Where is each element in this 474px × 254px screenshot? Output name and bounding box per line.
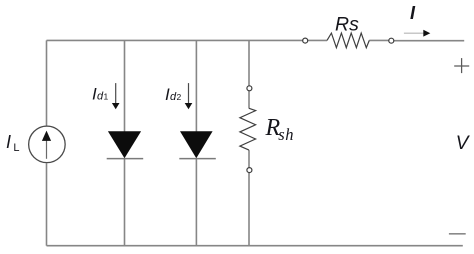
svg-text:I: I (410, 3, 416, 23)
svg-text:V: V (456, 133, 471, 154)
svg-text:sh: sh (278, 125, 294, 144)
svg-text:Rs: Rs (335, 13, 359, 35)
svg-text:1: 1 (104, 91, 109, 101)
svg-text:2: 2 (177, 92, 182, 102)
svg-text:L: L (13, 142, 19, 154)
svg-text:I: I (6, 132, 11, 152)
